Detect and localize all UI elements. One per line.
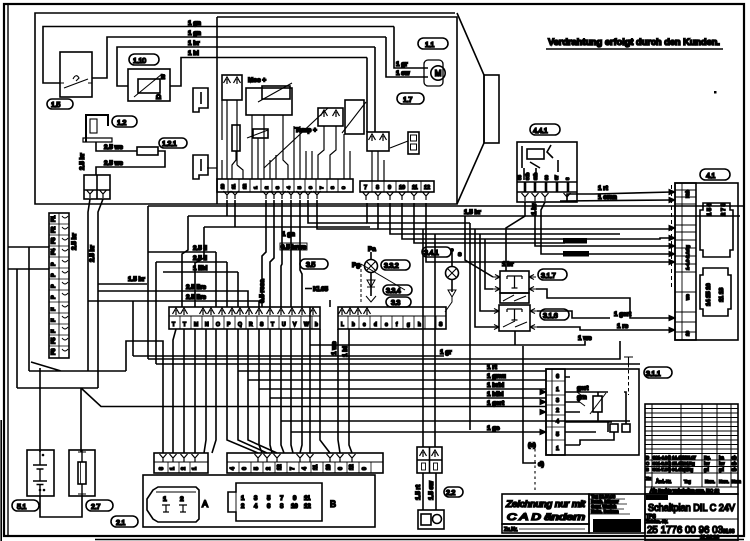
svg-text:Norm. Bertram: Norm. Bertram xyxy=(591,509,619,514)
svg-text:8: 8 xyxy=(376,185,379,191)
svg-text:12: 12 xyxy=(424,185,430,191)
svg-text:ha: ha xyxy=(719,455,724,460)
svg-text:hw: hw xyxy=(704,461,710,466)
svg-text:Mos +: Mos + xyxy=(248,77,266,84)
svg-text:86b: 86b xyxy=(525,172,530,180)
svg-text:ws: ws xyxy=(685,294,690,300)
svg-text:1.5 rt: 1.5 rt xyxy=(415,484,422,500)
svg-text:Änd.-Nr.: Änd.-Nr. xyxy=(656,479,671,484)
svg-text:Tag: Tag xyxy=(684,479,691,484)
svg-text:1.2.1: 1.2.1 xyxy=(162,139,177,148)
svg-text:F4: F4 xyxy=(51,249,57,255)
svg-text:4: 4 xyxy=(556,419,559,425)
svg-text:1 rs: 1 rs xyxy=(617,323,629,330)
svg-text:Ω: Ω xyxy=(156,94,161,101)
svg-text:2 7 8: 2 7 8 xyxy=(721,202,727,216)
svg-text:3: 3 xyxy=(254,496,258,502)
svg-text:2.7: 2.7 xyxy=(91,502,100,511)
svg-text:10: 10 xyxy=(399,185,405,191)
svg-text:U: U xyxy=(282,322,286,328)
svg-text:14 15 16: 14 15 16 xyxy=(706,283,712,306)
svg-text:11.06.96: 11.06.96 xyxy=(700,535,719,541)
svg-text:1: 1 xyxy=(253,186,258,189)
svg-text:sp.Rg: sp.Rg xyxy=(682,467,694,472)
svg-text:5: 5 xyxy=(254,467,260,470)
svg-text:12: 12 xyxy=(277,464,283,470)
svg-text:2: 2 xyxy=(556,408,559,414)
svg-text:F2: F2 xyxy=(51,227,57,233)
svg-text:gd: gd xyxy=(719,467,724,472)
svg-text:1 brbl: 1 brbl xyxy=(487,382,504,389)
svg-text:Kab: Kab xyxy=(685,189,690,198)
svg-text:Rg.: Rg. xyxy=(704,455,711,460)
svg-text:1.5 br: 1.5 br xyxy=(128,276,145,283)
svg-text:1 bl: 1 bl xyxy=(342,346,349,357)
svg-text:1-4.6-2.6.3g: 1-4.6-2.6.3g xyxy=(685,245,690,270)
svg-text:1 blbl: 1 blbl xyxy=(487,391,504,398)
svg-text:2: 2 xyxy=(181,467,187,470)
svg-text:1.5: 1.5 xyxy=(51,100,60,109)
svg-text:2.5 ws: 2.5 ws xyxy=(104,160,123,167)
svg-text:Nam.: Nam. xyxy=(719,479,729,484)
svg-text:1 oran: 1 oran xyxy=(598,194,617,201)
svg-text:4.4.1: 4.4.1 xyxy=(533,126,548,135)
svg-text:Pg: Pg xyxy=(352,262,360,269)
svg-text:1 gn: 1 gn xyxy=(188,20,201,27)
svg-text:Zu: Zu xyxy=(646,476,652,481)
svg-text:1 5 6: 1 5 6 xyxy=(707,202,713,216)
svg-text:1 br: 1 br xyxy=(531,203,538,215)
svg-text:1 libl: 1 libl xyxy=(193,265,208,272)
svg-text:O: O xyxy=(216,322,220,328)
svg-text:B: B xyxy=(646,467,649,472)
svg-text:1: 1 xyxy=(556,387,559,393)
svg-text:16: 16 xyxy=(685,330,690,336)
svg-text:P: P xyxy=(51,262,57,266)
svg-text:1.10: 1.10 xyxy=(133,56,146,65)
svg-text:3: 3 xyxy=(275,186,280,189)
svg-text:8: 8 xyxy=(330,186,335,189)
svg-text:4.1: 4.1 xyxy=(706,171,715,180)
svg-text:1.5 sw: 1.5 sw xyxy=(428,481,435,500)
svg-text:F: F xyxy=(51,318,57,322)
svg-text:S: S xyxy=(439,322,443,328)
svg-text:11: 11 xyxy=(304,496,311,502)
svg-text:0.5 brws: 0.5 brws xyxy=(281,244,307,251)
svg-text:87b: 87b xyxy=(533,172,538,180)
svg-text:3.1.1: 3.1.1 xyxy=(646,369,661,378)
svg-text:10: 10 xyxy=(326,464,332,470)
svg-text:S: S xyxy=(260,322,264,328)
svg-text:7: 7 xyxy=(364,185,367,191)
svg-text:2: 2 xyxy=(266,467,272,470)
svg-text:1 gr: 1 gr xyxy=(440,349,452,356)
svg-text:b: b xyxy=(315,322,318,328)
svg-text:10: 10 xyxy=(220,183,225,189)
svg-text:2.5 lirs: 2.5 lirs xyxy=(186,294,206,301)
svg-text:6: 6 xyxy=(242,467,248,470)
svg-text:M: M xyxy=(435,69,442,78)
svg-text:85: 85 xyxy=(517,175,522,180)
svg-text:1 ws: 1 ws xyxy=(578,335,592,342)
svg-text:1.2: 1.2 xyxy=(117,118,126,127)
svg-text:f: f xyxy=(396,322,398,328)
svg-text:2: 2 xyxy=(264,186,269,189)
svg-text:3.3: 3.3 xyxy=(391,298,400,307)
svg-text:13.4.97: 13.4.97 xyxy=(682,455,697,460)
svg-text:1: 1 xyxy=(163,496,167,503)
svg-text:gd: gd xyxy=(704,467,709,472)
svg-text:N: N xyxy=(205,322,209,328)
svg-text:1: 1 xyxy=(192,467,198,470)
svg-text:b: b xyxy=(352,322,355,328)
svg-text:2.5 lirs: 2.5 lirs xyxy=(186,284,206,291)
svg-text:gert: gert xyxy=(577,386,588,392)
svg-text:12: 12 xyxy=(304,504,311,510)
svg-text:sb: sb xyxy=(732,467,737,472)
svg-text:87: 87 xyxy=(554,175,559,180)
svg-text:sb: sb xyxy=(732,455,737,460)
svg-text:5: 5 xyxy=(556,432,559,438)
svg-text:8: 8 xyxy=(280,504,284,510)
svg-text:3.4.1: 3.4.1 xyxy=(424,248,439,257)
svg-text:2: 2 xyxy=(180,496,184,503)
svg-text:5: 5 xyxy=(297,186,302,189)
svg-text:2.5 li: 2.5 li xyxy=(193,255,207,262)
svg-text:5: 5 xyxy=(267,496,271,502)
svg-text:s: s xyxy=(458,251,462,258)
svg-text:T: T xyxy=(271,322,274,328)
svg-text:h: h xyxy=(418,322,421,328)
svg-text:F: F xyxy=(51,329,57,333)
svg-text:F5: F5 xyxy=(51,338,57,344)
svg-text:W: W xyxy=(304,322,309,328)
svg-text:3.1.6: 3.1.6 xyxy=(543,311,558,320)
svg-text:9: 9 xyxy=(362,467,368,470)
svg-text:11: 11 xyxy=(412,185,418,191)
svg-text:F6: F6 xyxy=(51,349,57,355)
svg-text:1 rt: 1 rt xyxy=(598,185,609,192)
svg-text:R: R xyxy=(249,322,253,328)
svg-text:11 13: 11 13 xyxy=(719,287,725,302)
svg-text:P: P xyxy=(51,284,57,288)
svg-text:2.2: 2.2 xyxy=(446,488,455,497)
svg-text:2.5 br: 2.5 br xyxy=(71,233,78,250)
svg-text:1 sw: 1 sw xyxy=(396,70,410,77)
svg-text:10: 10 xyxy=(291,504,298,510)
svg-text:3: 3 xyxy=(556,398,559,404)
svg-text:2: 2 xyxy=(241,504,245,510)
svg-text:1 gn: 1 gn xyxy=(282,231,295,238)
svg-text:1 gert: 1 gert xyxy=(487,400,505,407)
svg-text:Zu.Nr.: Zu.Nr. xyxy=(504,527,518,533)
svg-text:P: P xyxy=(51,273,57,277)
svg-text:Q: Q xyxy=(238,322,242,328)
svg-text:1.7: 1.7 xyxy=(403,95,412,104)
svg-text:P: P xyxy=(51,295,57,299)
svg-text:1 ws: 1 ws xyxy=(331,341,338,355)
svg-text:c: c xyxy=(363,322,366,328)
svg-text:11: 11 xyxy=(231,184,236,189)
svg-text:3.1.7: 3.1.7 xyxy=(541,271,556,280)
svg-text:2.5 li: 2.5 li xyxy=(193,245,207,252)
svg-text:C A D ändern: C A D ändern xyxy=(507,512,585,522)
svg-text:1 bl: 1 bl xyxy=(188,50,199,57)
svg-text:Zeichnung nur mit: Zeichnung nur mit xyxy=(505,499,586,509)
svg-text:9: 9 xyxy=(293,496,297,502)
svg-text:30: 30 xyxy=(544,175,549,180)
svg-text:4: 4 xyxy=(230,467,236,470)
svg-text:1 ge: 1 ge xyxy=(487,425,500,432)
svg-text:Nam: Nam xyxy=(732,479,741,484)
svg-text:1 br: 1 br xyxy=(188,40,200,47)
svg-text:6: 6 xyxy=(556,374,559,380)
svg-text:g: g xyxy=(407,322,410,328)
svg-text:d): d) xyxy=(538,461,544,468)
svg-text:(c): (c) xyxy=(528,442,536,449)
svg-text:12: 12 xyxy=(242,183,247,189)
svg-text:Verdrahtung erfolgt durch den: Verdrahtung erfolgt durch den Kunden. xyxy=(548,37,720,48)
svg-text:Schaltplan DIL C 24V: Schaltplan DIL C 24V xyxy=(648,503,735,514)
svg-text:Alle Rechte vorbehalten gem. I: Alle Rechte vorbehalten gem. ISO 16 xyxy=(650,488,720,493)
svg-text:3.3.4: 3.3.4 xyxy=(386,286,401,295)
svg-text:7: 7 xyxy=(319,186,324,189)
svg-text:Bl.03: Bl.03 xyxy=(723,529,735,535)
svg-text:2.5 br: 2.5 br xyxy=(89,245,96,262)
svg-text:1 gn: 1 gn xyxy=(188,30,201,37)
svg-text:1.1: 1.1 xyxy=(425,40,434,49)
svg-text:8: 8 xyxy=(565,177,570,180)
svg-text:6: 6 xyxy=(338,467,344,470)
svg-text:P: P xyxy=(227,322,231,328)
svg-text:1 gr: 1 gr xyxy=(396,61,408,68)
svg-text:3: 3 xyxy=(159,467,165,470)
svg-text:M: M xyxy=(194,322,198,328)
svg-text:4: 4 xyxy=(302,467,308,470)
svg-text:1 br: 1 br xyxy=(502,261,514,268)
svg-text:sb: sb xyxy=(732,461,737,466)
svg-text:1: 1 xyxy=(170,467,176,470)
svg-text:5.1: 5.1 xyxy=(17,502,26,511)
svg-text:F1: F1 xyxy=(51,216,57,222)
svg-text:12: 12 xyxy=(349,464,355,470)
svg-text:Pa: Pa xyxy=(368,246,376,253)
svg-text:2.5 ws: 2.5 ws xyxy=(104,144,123,151)
svg-text:e: e xyxy=(385,322,388,328)
svg-text:F3: F3 xyxy=(51,238,57,244)
svg-text:D: D xyxy=(646,455,649,460)
svg-text:1.5 br: 1.5 br xyxy=(464,209,481,216)
svg-text:6: 6 xyxy=(267,504,271,510)
svg-text:1 rt: 1 rt xyxy=(487,364,498,371)
svg-text:Nam.: Nam. xyxy=(705,479,715,484)
svg-text:A: A xyxy=(202,499,208,509)
svg-text:2.1: 2.1 xyxy=(116,518,125,527)
svg-text:4: 4 xyxy=(286,186,291,189)
svg-text:T: T xyxy=(183,322,186,328)
svg-text:Kl.65: Kl.65 xyxy=(313,286,329,293)
svg-text:d: d xyxy=(374,322,377,328)
svg-text:2.5 br: 2.5 br xyxy=(79,153,86,170)
svg-text:C: C xyxy=(646,461,649,466)
svg-text:T: T xyxy=(172,322,175,328)
svg-text:1 gert: 1 gert xyxy=(614,311,632,318)
svg-text:L: L xyxy=(341,322,344,328)
svg-text:it: it xyxy=(161,74,166,81)
svg-text:hw: hw xyxy=(719,461,725,466)
svg-text:B: B xyxy=(330,499,336,509)
svg-text:7: 7 xyxy=(290,467,296,470)
svg-text:3.3.2: 3.3.2 xyxy=(384,261,399,270)
svg-text:9: 9 xyxy=(341,186,346,189)
svg-text:6: 6 xyxy=(308,186,313,189)
svg-text:1: 1 xyxy=(241,496,245,502)
svg-text:11: 11 xyxy=(313,464,319,470)
svg-text:7: 7 xyxy=(280,496,284,502)
svg-text:V: V xyxy=(293,322,297,328)
svg-text:1 grau: 1 grau xyxy=(487,373,506,380)
svg-text:9: 9 xyxy=(388,185,391,191)
svg-text:4: 4 xyxy=(254,504,258,510)
svg-text:3.5: 3.5 xyxy=(306,260,315,269)
svg-text:F: F xyxy=(51,307,57,311)
svg-text:Bst.Rg: Bst.Rg xyxy=(682,461,695,466)
svg-text:1: 1 xyxy=(556,446,559,452)
